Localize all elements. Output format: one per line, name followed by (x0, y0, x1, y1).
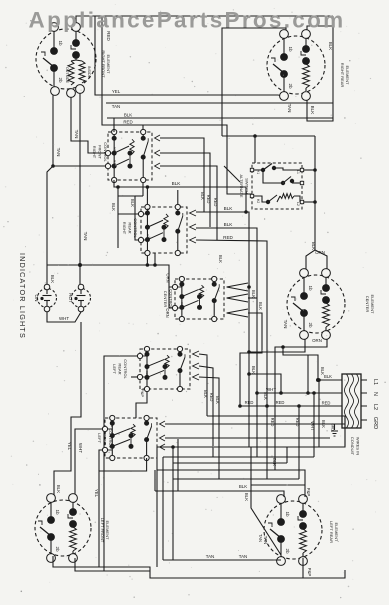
svg-text:2b: 2b (58, 77, 63, 83)
svg-text:1b: 1b (308, 285, 313, 291)
wire to center element ORN (306, 136, 315, 271)
svg-text:ELEMENT: ELEMENT (370, 295, 375, 314)
left front element terminal 1 bottom (47, 554, 56, 563)
wire WHT lamp bottoms (47, 312, 81, 322)
svg-text:P&P: P&P (140, 389, 145, 397)
svg-text:L1: L1 (372, 379, 378, 385)
wire TAN 2 (71, 95, 105, 153)
center element dashed circle (287, 275, 345, 333)
svg-text:BLK: BLK (218, 255, 223, 263)
svg-text:2b: 2b (285, 548, 290, 554)
right rear element terminal 1 bottom (280, 92, 289, 101)
svg-text:BLK: BLK (215, 396, 220, 404)
center control box (175, 279, 224, 319)
left rear element terminal 2 top (299, 495, 308, 504)
svg-text:1b: 1b (58, 40, 63, 46)
right front element terminal 2 top (72, 23, 81, 32)
svg-text:INSIDE: INSIDE (87, 66, 91, 79)
left rear control box (140, 349, 190, 389)
wire bottom bus 3 (173, 478, 299, 480)
wire left rear control columns (199, 354, 207, 416)
svg-text:ON: ON (34, 295, 39, 302)
wire ORN center element bottom (275, 334, 327, 470)
wire top bus BLK (76, 16, 333, 28)
wire from right front control bottom (142, 183, 144, 196)
svg-text:TAN: TAN (56, 148, 61, 157)
wire WHT to terminal block (257, 392, 342, 394)
svg-text:ELEMENT: ELEMENT (106, 55, 111, 74)
wire bottom edge 1 (53, 556, 345, 578)
svg-text:TAN: TAN (287, 104, 292, 113)
svg-text:BLK: BLK (224, 206, 234, 211)
wire bottom edge 2 (75, 558, 150, 571)
right rear element terminal 2 bottom (302, 92, 311, 101)
svg-text:LEFT: LEFT (97, 433, 102, 443)
wire stub to WHT (307, 355, 309, 393)
right rear element coil resistor (303, 64, 310, 88)
svg-text:RED: RED (209, 393, 214, 402)
svg-text:WIRES IN: WIRES IN (356, 437, 361, 455)
svg-text:RED: RED (270, 418, 275, 427)
svg-text:LEFT: LEFT (112, 364, 117, 374)
left front element coil contact (72, 503, 74, 512)
svg-text:BLK: BLK (224, 222, 234, 227)
svg-text:RED: RED (123, 120, 132, 125)
left front control box (105, 418, 157, 458)
svg-text:YEL: YEL (112, 89, 121, 94)
alternate switch resistor (280, 194, 294, 199)
svg-text:CENTER: CENTER (163, 291, 168, 308)
svg-text:2b: 2b (288, 83, 293, 89)
left rear element terminal 1 top (277, 495, 286, 504)
wire fan left rear control (193, 351, 199, 357)
wire TAN bottom (163, 559, 281, 561)
right front element left limiter switch (53, 32, 55, 51)
svg-text:YEL: YEL (67, 442, 72, 451)
left front element terminal 1 top (47, 494, 56, 503)
svg-text:REAR: REAR (117, 363, 122, 374)
terminal block (342, 374, 361, 428)
svg-text:ELEMENT: ELEMENT (345, 66, 350, 85)
svg-text:ALTERNATE: ALTERNATE (239, 175, 244, 198)
right rear element terminal 2 top (302, 30, 311, 39)
right rear control box (141, 207, 187, 253)
junction (78, 263, 82, 267)
left rear element terminal 1 bottom (277, 557, 286, 566)
svg-text:BLK: BLK (111, 203, 116, 211)
wire bottom bus 5 to left rear elem (157, 470, 305, 497)
wire fan right rear control (190, 210, 196, 216)
center element terminal 1 bottom (300, 331, 309, 340)
wire RED into control box top (142, 125, 144, 132)
wire TAN left element to control (53, 92, 105, 166)
svg-text:TAN: TAN (74, 130, 79, 139)
svg-text:INDICATOR LIGHTS: INDICATOR LIGHTS (18, 253, 27, 339)
wire right rear control bottom drops (146, 256, 148, 265)
svg-text:RED: RED (206, 195, 211, 204)
wire RED to terminal block (240, 405, 342, 407)
right front element dashed circle (36, 29, 96, 89)
svg-text:SWITCH: SWITCH (245, 178, 250, 194)
wire bus y463 (173, 462, 287, 464)
right front element terminal 2 bottom (67, 89, 76, 98)
right rear element terminal 1 top (280, 30, 289, 39)
wire fan center control (227, 283, 248, 291)
center element coil resistor (323, 303, 330, 327)
svg-text:RED: RED (106, 31, 111, 41)
svg-text:ORN: ORN (166, 273, 171, 282)
svg-text:AppliancePartsPros.com: AppliancePartsPros.com (29, 7, 346, 32)
wire BLK feed from ORN (283, 347, 318, 380)
svg-text:BLK: BLK (239, 484, 247, 489)
indicator lamp HOT (72, 289, 91, 308)
left rear element coil contact (302, 504, 304, 514)
svg-text:N: N (372, 392, 378, 396)
svg-text:P&P: P&P (307, 568, 312, 577)
svg-text:L2: L2 (372, 404, 378, 410)
wire stubs into right rear control top (146, 187, 148, 204)
wire drop x173 (172, 447, 174, 560)
svg-text:LEFT REAR: LEFT REAR (329, 521, 334, 543)
svg-text:1b: 1b (285, 511, 290, 517)
wire BLK to terminal block (318, 379, 342, 381)
svg-text:BLK: BLK (258, 302, 263, 310)
wire RED drop (298, 406, 300, 479)
wire bus y416 (207, 416, 345, 446)
wire feed H2 right rear control (135, 196, 138, 240)
svg-text:2b: 2b (55, 546, 60, 552)
svg-text:RIGHT: RIGHT (122, 222, 127, 235)
right front element inside coil resistor (79, 61, 85, 83)
wire verticals bottom (156, 447, 158, 470)
right front element terminal 3 bottom (76, 85, 85, 94)
wire fan right front control (155, 135, 160, 141)
wire WHT drop (313, 393, 315, 457)
svg-text:REAR: REAR (127, 222, 132, 233)
svg-text:TAN: TAN (258, 534, 263, 542)
center element terminal 2 bottom (322, 331, 331, 340)
wire center control to columns (248, 297, 257, 299)
terminal block ticks (361, 379, 367, 381)
svg-text:RED: RED (295, 418, 300, 427)
wire BLK drop from block lines (318, 380, 320, 447)
svg-text:ORN: ORN (315, 250, 325, 255)
svg-text:TAN: TAN (83, 232, 88, 241)
center element terminal 1 top (300, 269, 309, 278)
left front element left limiter switch (50, 503, 52, 520)
right front element coil contact (75, 32, 77, 43)
svg-text:BLK: BLK (311, 242, 316, 250)
wire BLK into control box top (113, 118, 115, 132)
svg-text:TAN: TAN (206, 554, 214, 559)
svg-text:RIGHT: RIGHT (92, 146, 97, 159)
wire left rear elem bottom (302, 558, 304, 578)
wire bus y136 BLK (222, 135, 315, 137)
wire bottom bus 2 (163, 456, 314, 458)
svg-text:TAN: TAN (283, 320, 288, 329)
wire y265 to center control (47, 265, 172, 287)
right rear element coil contact (305, 39, 307, 49)
svg-text:ELEMENT: ELEMENT (105, 521, 110, 540)
svg-text:BLK: BLK (272, 458, 277, 466)
right rear element left limiter switch (283, 39, 285, 57)
left rear element dashed circle (264, 501, 322, 559)
wire branch to WHT (249, 374, 281, 393)
svg-text:FRONT: FRONT (97, 145, 102, 159)
wire bus y485 (251, 484, 305, 486)
svg-text:BLK: BLK (56, 485, 61, 493)
left front element coil resistor (70, 527, 77, 551)
svg-text:YEL: YEL (94, 489, 99, 498)
alternate switch pointer (224, 166, 240, 182)
svg-text:BLK: BLK (203, 390, 208, 398)
svg-text:L1: L1 (296, 170, 300, 174)
wire BLK y212 (196, 212, 249, 447)
svg-text:2b: 2b (308, 322, 313, 328)
right front element terminal 1 top (50, 23, 59, 32)
left rear element coil resistor (300, 529, 307, 553)
wire YEL right down (99, 458, 147, 567)
svg-text:P&P: P&P (306, 488, 311, 497)
wire TAN to HOT lamp (79, 92, 81, 284)
svg-text:BLK: BLK (321, 420, 326, 428)
ground symbol (335, 424, 342, 430)
wire bottom bus 4 (177, 439, 179, 491)
svg-text:CONTROL: CONTROL (123, 359, 128, 379)
left rear element terminal 2 bottom (299, 557, 308, 566)
svg-text:BLK: BLK (328, 42, 333, 50)
right front control box (108, 132, 152, 180)
wire bottom bus 1 BLK (157, 416, 345, 447)
wire TAN diagonal to left rear element (251, 447, 281, 555)
svg-text:BLK: BLK (50, 275, 55, 283)
wire RED drop (102, 16, 252, 194)
center element coil contact (325, 278, 327, 288)
wire feed H2 left rear control (131, 376, 137, 378)
svg-text:RED: RED (213, 198, 218, 207)
wire feed H1 right rear control (117, 187, 119, 248)
wire RED y241 (196, 240, 267, 479)
svg-text:ELEMENT: ELEMENT (334, 523, 339, 542)
svg-text:RIGHT REAR: RIGHT REAR (340, 63, 345, 88)
svg-text:RED: RED (322, 401, 331, 406)
svg-text:BLK: BLK (263, 392, 268, 400)
wire BLK box bottom (114, 180, 246, 212)
svg-text:1b: 1b (288, 46, 293, 52)
junction center control to column (247, 285, 251, 289)
svg-text:RIGHT FRONT: RIGHT FRONT (101, 50, 106, 78)
svg-text:CONDUIT: CONDUIT (350, 437, 355, 456)
left front element terminal 2 bottom (69, 554, 78, 563)
wire right rear loop BLK (307, 26, 333, 36)
svg-text:ORN: ORN (312, 338, 322, 343)
svg-text:GRD: GRD (372, 417, 378, 429)
svg-text:BLK: BLK (172, 181, 182, 186)
right front element outside coil resistor (68, 61, 74, 85)
wire to ON lamp BLK (47, 166, 53, 284)
svg-text:WHT: WHT (310, 421, 315, 431)
svg-text:RED: RED (276, 400, 285, 405)
svg-text:RED: RED (245, 400, 254, 405)
svg-text:BLK: BLK (251, 366, 256, 374)
left front element terminal 2 top (69, 494, 78, 503)
svg-text:CENTER: CENTER (365, 296, 370, 313)
alternate switch box (252, 163, 302, 209)
wire BLK bus y118 (107, 117, 333, 119)
right rear element dashed circle (267, 36, 325, 94)
right front element terminal 1 bottom (51, 87, 60, 96)
wire TAN bus y103 (106, 102, 333, 104)
alternate switch contacts (261, 168, 265, 172)
svg-text:BLK: BLK (310, 106, 315, 116)
svg-text:HOT: HOT (68, 293, 73, 303)
wire WHT down to left front control (54, 322, 81, 498)
svg-text:BLK: BLK (244, 493, 249, 501)
left front element dashed circle (35, 500, 91, 556)
wire YEL bus y95 (95, 16, 278, 95)
wire alt switch L2 stub (304, 201, 315, 203)
svg-text:BLK: BLK (320, 367, 325, 375)
svg-text:TAN: TAN (112, 104, 120, 109)
wire right rear top-left to alt area (222, 28, 286, 136)
wire feed H1 left rear control (104, 356, 137, 571)
svg-text:WHT: WHT (78, 443, 83, 453)
svg-text:GRD: GRD (331, 423, 335, 431)
svg-text:BLK: BLK (130, 199, 135, 207)
svg-text:1b: 1b (55, 509, 60, 515)
wire left rear control bottom to left front control (136, 392, 147, 418)
svg-text:BLK: BLK (251, 290, 256, 298)
svg-text:BLK: BLK (200, 192, 205, 200)
wire BLK y228 (196, 228, 257, 457)
svg-text:OUTSIDE: OUTSIDE (65, 67, 69, 84)
wire alt switch top feed (254, 136, 256, 163)
svg-text:H2: H2 (256, 199, 260, 203)
svg-text:TAN: TAN (239, 554, 247, 559)
indicator lamp ON (38, 289, 57, 308)
wire fan left front control (160, 421, 165, 427)
center element left limiter switch (303, 278, 305, 296)
wire alt switch L1 stub (304, 169, 315, 171)
svg-text:WHT: WHT (59, 316, 69, 321)
svg-text:ORN: ORN (165, 308, 170, 317)
wire TAN center element (249, 334, 305, 352)
wire bottom bus 7 BLK (155, 491, 284, 497)
center element terminal 2 top (322, 269, 331, 278)
wire YEL below box (75, 429, 102, 498)
svg-text:RED: RED (223, 235, 233, 240)
left rear element left limiter switch (280, 504, 282, 522)
svg-text:BLK: BLK (124, 113, 132, 118)
wire H2 stub left front control (99, 450, 102, 471)
wire left front control to bus (165, 423, 345, 425)
